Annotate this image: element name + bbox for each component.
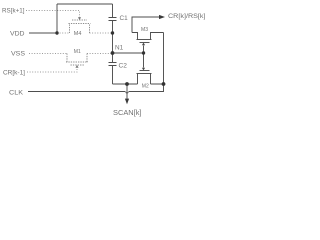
- transistor M2: [137, 53, 152, 84]
- junction dot gate node M3/M2: [142, 51, 145, 54]
- svg-text:CR[k-1]: CR[k-1]: [3, 70, 25, 77]
- wire VDD dashed segment to M4 and C1 rail: [57, 32, 113, 34]
- wire left vertical rail V1: [56, 4, 58, 33]
- wire CLK line with hop at SCAN vertical: [28, 91, 162, 93]
- wire bottom rail y=84: [113, 83, 164, 85]
- junction dot VDD/V1: [55, 31, 58, 34]
- wire VDD solid segment: [29, 32, 57, 34]
- transistor M1 (dashed): [66, 54, 88, 66]
- svg-text:SCAN[k]: SCAN[k]: [113, 110, 142, 117]
- transistor M3 gate arrow: [142, 43, 145, 46]
- wire top rail: [57, 3, 113, 5]
- svg-text:C2: C2: [119, 62, 128, 69]
- junction dot VDD/C1 rail: [111, 31, 114, 34]
- svg-text:VSS: VSS: [11, 51, 26, 58]
- wire center vertical rail x=112.5: [112, 4, 114, 84]
- svg-text:N1: N1: [115, 45, 124, 52]
- junction dot right rail/bottom rail: [162, 82, 166, 86]
- svg-text:M4: M4: [74, 31, 82, 37]
- wire right vertical rail x=163.5: [162, 33, 164, 92]
- transistor M4 (dashed): [69, 20, 91, 33]
- wire CLK hop arc: [125, 92, 129, 94]
- capacitor C1: [109, 18, 117, 21]
- svg-text:M3: M3: [141, 27, 149, 33]
- svg-text:CR[k]/RS[k]: CR[k]/RS[k]: [168, 13, 206, 20]
- transistor M2 gate arrow: [142, 68, 145, 71]
- arrowhead CR output: [159, 15, 165, 19]
- transistor M1 gate arrow: [75, 65, 78, 68]
- svg-text:M2: M2: [142, 83, 149, 89]
- svg-text:VDD: VDD: [10, 31, 25, 38]
- svg-text:M1: M1: [74, 49, 81, 55]
- svg-text:CLK: CLK: [9, 90, 24, 97]
- transistor M3: [132, 33, 164, 54]
- arrowhead SCAN output: [125, 99, 129, 105]
- wire output arrow to CR[k]/RS[k]: [132, 17, 159, 33]
- junction dot N1: [111, 51, 115, 55]
- transistor M4 gate arrow: [78, 17, 81, 20]
- svg-text:RS[k+1]: RS[k+1]: [2, 8, 25, 15]
- wire CR[k-1] dashed to M1 gate: [27, 68, 77, 72]
- wire VSS dashed to M1: [29, 53, 113, 55]
- capacitor C2: [109, 63, 117, 66]
- wire SCAN output vertical: [126, 84, 128, 99]
- junction dot SCAN/bottom rail: [125, 82, 129, 86]
- wire RS[k+1] dashed to M4 gate: [26, 11, 80, 18]
- svg-text:C1: C1: [120, 15, 129, 22]
- wire N1 horizontal solid to gates: [113, 52, 144, 54]
